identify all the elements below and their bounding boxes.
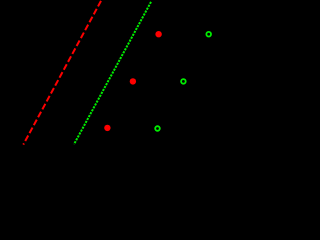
red data point 3 <box>104 125 110 131</box>
green data point 1 <box>206 32 211 37</box>
red data point 1 <box>155 31 161 37</box>
green dotted decision line <box>74 2 151 144</box>
green data point 3 <box>155 126 160 131</box>
red data point 2 <box>130 78 136 84</box>
green data point 2 <box>181 79 186 84</box>
red dashed decision line <box>23 1 101 145</box>
